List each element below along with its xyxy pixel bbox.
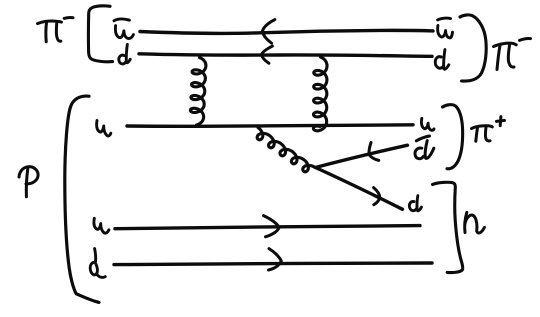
- label u pi-plus: [421, 118, 434, 130]
- arrow left on d line: [261, 46, 272, 63]
- closing bracket pi-minus right: [460, 15, 486, 81]
- label d quark 2: [90, 249, 105, 278]
- label d-bar pi-plus: [415, 136, 434, 159]
- d quark line (second): [139, 54, 432, 57]
- u-bar quark line (top): [140, 30, 433, 33]
- arrow right on d line: [269, 249, 282, 270]
- label u quark 1: [97, 121, 111, 136]
- label pi-plus: [472, 117, 505, 142]
- u quark line (fourth): [115, 226, 420, 229]
- proton bracket: [65, 96, 99, 302]
- label pi-minus incoming: [38, 18, 74, 42]
- u quark line (third): [127, 125, 413, 127]
- label n neutron: [465, 212, 485, 233]
- label d right: [435, 50, 449, 70]
- label d neutron: [409, 196, 421, 211]
- label pi-minus outgoing: [494, 39, 531, 70]
- gluon g1 vertical: [190, 58, 206, 126]
- label u quark 2: [94, 218, 109, 233]
- gluon g3 diagonal: [257, 128, 315, 172]
- label d left: [119, 44, 130, 64]
- label u-bar left: [114, 19, 133, 38]
- d-bar line to pi-plus: [316, 145, 408, 167]
- label u-bar right: [438, 18, 453, 38]
- d quark line (fifth): [114, 263, 432, 265]
- arrow on d-bar line: [369, 143, 379, 161]
- arrow on d line: [374, 188, 380, 205]
- bracket left of pi-minus quarks: [88, 6, 112, 62]
- d line to neutron: [316, 168, 403, 210]
- label P proton: [19, 167, 38, 197]
- closing bracket pi-plus: [443, 105, 463, 169]
- gluon g2 vertical: [313, 57, 327, 131]
- neutron bracket: [433, 182, 463, 272]
- arrow right on u line: [264, 216, 280, 237]
- arrow left on u-bar line: [262, 20, 274, 44]
